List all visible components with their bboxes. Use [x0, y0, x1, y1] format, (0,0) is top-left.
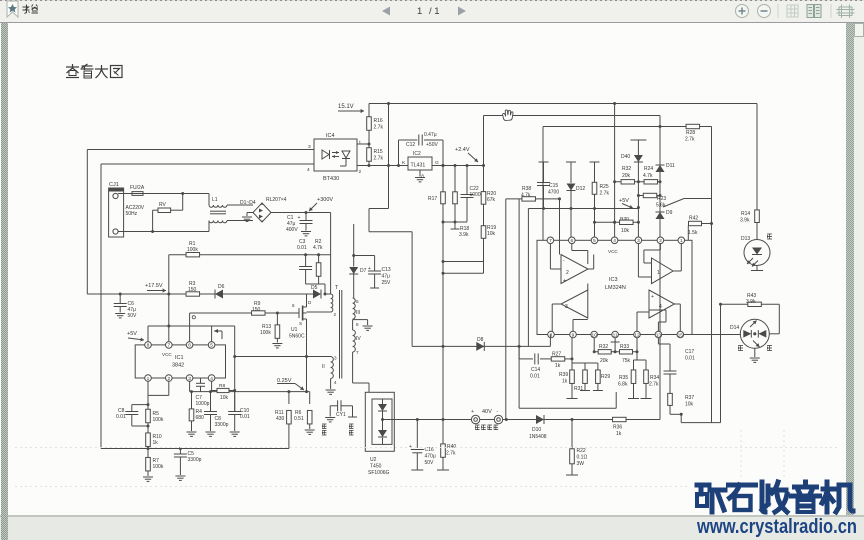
svg-text:D5: D5: [311, 285, 318, 291]
svg-text:R25: R25: [600, 184, 609, 190]
svg-text:3: 3: [565, 304, 568, 310]
svg-text:3: 3: [334, 356, 337, 361]
svg-text:+: +: [651, 294, 654, 300]
svg-text:1k: 1k: [562, 379, 568, 385]
svg-text:3.9k: 3.9k: [746, 299, 756, 305]
svg-text:D13: D13: [741, 236, 750, 242]
svg-text:10k: 10k: [487, 231, 496, 237]
svg-text:D1~D4: D1~D4: [240, 200, 256, 206]
svg-text:FU/2A: FU/2A: [130, 185, 145, 191]
svg-text:5: 5: [210, 343, 213, 349]
svg-text:R27: R27: [552, 352, 561, 358]
svg-text:R28: R28: [686, 130, 695, 136]
svg-text:R17: R17: [428, 196, 437, 202]
svg-text:IC3: IC3: [609, 277, 618, 283]
svg-text:RV: RV: [159, 202, 167, 208]
svg-text:R35: R35: [619, 375, 628, 381]
svg-text:IC1: IC1: [175, 355, 184, 361]
svg-text:R31: R31: [574, 386, 583, 392]
svg-text:0.01: 0.01: [240, 414, 250, 420]
svg-text:+: +: [298, 215, 301, 221]
svg-text:4: 4: [334, 380, 337, 385]
svg-text:R15: R15: [374, 149, 383, 155]
svg-text:R34: R34: [650, 375, 659, 381]
svg-text:R38: R38: [522, 186, 531, 192]
svg-text:BT430: BT430: [323, 176, 339, 182]
svg-text:2.7k: 2.7k: [374, 156, 384, 162]
svg-text:R33: R33: [620, 344, 629, 350]
svg-text:1: 1: [657, 270, 660, 276]
svg-text:R8: R8: [219, 383, 225, 389]
svg-text:R29: R29: [601, 374, 610, 380]
svg-text:4.7k: 4.7k: [521, 193, 531, 199]
svg-text:D7: D7: [360, 268, 367, 274]
svg-text:3: 3: [637, 238, 640, 244]
svg-text:U2: U2: [370, 457, 377, 463]
svg-text:4.7k: 4.7k: [313, 245, 323, 251]
svg-text:IV: IV: [356, 336, 361, 342]
svg-text:D11: D11: [666, 163, 675, 169]
svg-text:3.9k: 3.9k: [459, 232, 469, 238]
svg-text:D: D: [308, 300, 312, 305]
svg-text:LM324N: LM324N: [605, 285, 626, 291]
svg-text:D40: D40: [621, 154, 630, 160]
svg-text:4: 4: [613, 238, 616, 244]
svg-text:470μ: 470μ: [425, 454, 436, 460]
svg-text:L1: L1: [212, 197, 218, 203]
svg-text:R36: R36: [613, 425, 622, 431]
svg-text:75k: 75k: [622, 358, 631, 364]
svg-text:1: 1: [359, 140, 362, 146]
svg-text:680: 680: [196, 415, 205, 421]
svg-text:20k: 20k: [600, 358, 609, 364]
svg-text:13: 13: [656, 332, 662, 338]
svg-text:+5V: +5V: [127, 331, 137, 337]
svg-text:10k: 10k: [220, 395, 229, 401]
svg-text:100k: 100k: [187, 247, 198, 253]
svg-text:+5V: +5V: [619, 198, 629, 204]
svg-text:67k: 67k: [487, 197, 496, 203]
svg-text:0.01: 0.01: [685, 356, 695, 362]
svg-text:1k: 1k: [616, 431, 622, 437]
svg-text:D9: D9: [666, 210, 673, 216]
svg-text:2.7k: 2.7k: [685, 137, 695, 143]
svg-text:7: 7: [549, 238, 552, 244]
svg-text:2.7k: 2.7k: [374, 125, 384, 131]
svg-text:CY1: CY1: [336, 412, 346, 418]
svg-text:R23: R23: [657, 196, 666, 202]
svg-text:5: 5: [356, 299, 359, 304]
svg-text:A: A: [421, 173, 425, 179]
svg-text:1k: 1k: [555, 363, 561, 369]
svg-text:C17: C17: [685, 349, 694, 355]
svg-text:SF1006G: SF1006G: [368, 470, 390, 476]
svg-text:5N60C: 5N60C: [289, 334, 305, 340]
svg-text:15: 15: [678, 332, 684, 338]
svg-text:2: 2: [566, 270, 569, 276]
svg-text:-: -: [563, 258, 565, 264]
svg-text:+2.4V: +2.4V: [455, 147, 470, 153]
svg-text:6: 6: [188, 343, 191, 349]
svg-text:R32: R32: [599, 344, 608, 350]
svg-text:100k: 100k: [260, 330, 271, 336]
svg-text:1.5k: 1.5k: [688, 230, 698, 236]
svg-text:IC2: IC2: [413, 151, 421, 157]
svg-text:6.8k: 6.8k: [618, 382, 628, 388]
svg-text:1k: 1k: [153, 440, 159, 446]
svg-text:6: 6: [356, 322, 359, 327]
svg-text:III: III: [356, 310, 360, 316]
svg-text:IC4: IC4: [326, 133, 335, 139]
svg-text:2: 2: [167, 376, 170, 382]
svg-text:9: 9: [572, 332, 575, 338]
svg-text:R16: R16: [374, 118, 383, 124]
svg-text:+17.5V: +17.5V: [145, 283, 163, 289]
svg-text:4: 4: [659, 304, 662, 310]
svg-text:3W: 3W: [577, 461, 585, 467]
svg-text:4700: 4700: [548, 190, 559, 196]
svg-text:11: 11: [613, 332, 618, 338]
svg-text:T450: T450: [370, 464, 382, 470]
svg-text:4.7k: 4.7k: [643, 173, 653, 179]
svg-text:25V: 25V: [382, 280, 392, 286]
svg-text:VCC: VCC: [162, 352, 172, 357]
svg-text:0.51: 0.51: [294, 416, 304, 422]
svg-text:R24: R24: [644, 166, 653, 172]
svg-text:7: 7: [167, 343, 170, 349]
svg-text:100k: 100k: [153, 417, 164, 423]
svg-text:4: 4: [210, 376, 213, 382]
svg-text:47μ: 47μ: [382, 274, 391, 280]
svg-text:40V: 40V: [482, 409, 492, 415]
svg-text:RL207×4: RL207×4: [266, 197, 287, 203]
svg-text:+: +: [563, 278, 566, 284]
svg-text:/ 1: / 1: [429, 6, 440, 17]
svg-text:VCC: VCC: [608, 249, 618, 254]
svg-text:R22: R22: [577, 448, 586, 454]
svg-text:2: 2: [334, 312, 337, 317]
svg-text:D12: D12: [576, 186, 585, 192]
svg-text:R14: R14: [741, 211, 750, 217]
svg-text:+300V: +300V: [317, 197, 333, 203]
svg-text:D10: D10: [532, 427, 541, 433]
svg-text:150: 150: [252, 307, 261, 313]
svg-text:0.01: 0.01: [116, 414, 126, 420]
svg-text:2.7k: 2.7k: [600, 191, 610, 197]
svg-text:0.47μ: 0.47μ: [424, 132, 437, 138]
svg-text:7: 7: [356, 350, 359, 355]
svg-text:1: 1: [417, 6, 422, 17]
svg-text:400V: 400V: [286, 227, 298, 233]
svg-text:1: 1: [680, 238, 683, 244]
svg-text:T: T: [335, 285, 339, 291]
svg-text:1000p: 1000p: [196, 401, 210, 407]
svg-text:3300p: 3300p: [188, 457, 202, 463]
svg-text:430: 430: [276, 416, 285, 422]
svg-text:5: 5: [593, 238, 596, 244]
svg-text:10k: 10k: [685, 402, 694, 408]
svg-text:C14: C14: [531, 367, 540, 373]
svg-text:1000: 1000: [470, 192, 481, 198]
svg-text:CJ1: CJ1: [109, 182, 119, 188]
svg-text:50Hz: 50Hz: [126, 211, 138, 217]
svg-text:0.1Ω: 0.1Ω: [577, 455, 588, 461]
svg-text:1N5408: 1N5408: [529, 434, 547, 440]
svg-text:R32: R32: [622, 166, 631, 172]
svg-text:2.7k: 2.7k: [649, 382, 659, 388]
svg-text:10: 10: [592, 332, 598, 338]
svg-text:-: -: [497, 409, 499, 415]
svg-text:U1: U1: [291, 327, 298, 333]
svg-text:D14: D14: [730, 325, 739, 331]
svg-text:3: 3: [188, 376, 191, 382]
svg-text:D8: D8: [477, 337, 484, 343]
svg-text:II: II: [322, 364, 325, 370]
svg-text:TL431: TL431: [411, 163, 426, 169]
svg-text:R30: R30: [620, 216, 629, 222]
svg-text:50V: 50V: [128, 313, 138, 319]
svg-text:C13: C13: [382, 267, 391, 273]
svg-text:C12: C12: [406, 142, 415, 148]
svg-text:C15: C15: [549, 183, 558, 189]
svg-text:+: +: [471, 409, 474, 415]
svg-text:100k: 100k: [153, 464, 164, 470]
svg-text:0.01: 0.01: [297, 245, 307, 251]
svg-text:150: 150: [188, 287, 197, 293]
svg-text:D6: D6: [218, 284, 225, 290]
svg-text:10k: 10k: [621, 228, 630, 234]
svg-text:15.1V: 15.1V: [338, 104, 354, 110]
svg-text:3.9k: 3.9k: [740, 218, 750, 224]
svg-text:2: 2: [659, 238, 662, 244]
svg-text:20k: 20k: [622, 173, 631, 179]
svg-text:4: 4: [307, 167, 310, 173]
svg-text:2: 2: [359, 169, 362, 175]
svg-text:www.crystalradio.cn: www.crystalradio.cn: [696, 515, 857, 538]
svg-text:S: S: [299, 321, 302, 326]
svg-text:5.6k: 5.6k: [656, 203, 666, 209]
svg-text:50V: 50V: [425, 460, 435, 466]
svg-text:+50V: +50V: [426, 142, 438, 148]
svg-text:8: 8: [147, 343, 150, 349]
svg-text:R42: R42: [689, 216, 698, 222]
svg-text:0.01: 0.01: [530, 374, 540, 380]
svg-text:R39: R39: [559, 372, 568, 378]
svg-text:1: 1: [147, 376, 150, 382]
svg-text:3300p: 3300p: [215, 422, 229, 428]
svg-text:R37: R37: [685, 395, 694, 401]
svg-text:3842: 3842: [172, 363, 184, 369]
svg-text:12: 12: [634, 332, 640, 338]
svg-text:6: 6: [292, 303, 295, 308]
svg-text:6: 6: [570, 238, 573, 244]
svg-text:2.7k: 2.7k: [446, 451, 456, 457]
